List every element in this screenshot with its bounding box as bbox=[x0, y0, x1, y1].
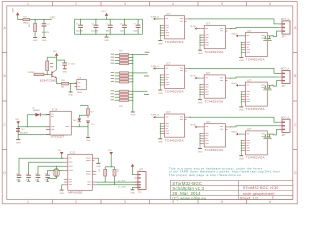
svg-text:STorM32 BGC v130: STorM32 BGC v130 bbox=[243, 186, 279, 190]
svg-text:I2C_SCL: I2C_SCL bbox=[118, 180, 126, 182]
svg-text:Sheet: 1/2: Sheet: 1/2 bbox=[240, 197, 259, 201]
svg-text:IC14: IC14 bbox=[52, 108, 58, 112]
svg-text:10k: 10k bbox=[61, 87, 64, 89]
svg-text:GND: GND bbox=[42, 40, 47, 42]
svg-text:100u/6V3: 100u/6V3 bbox=[20, 132, 28, 134]
svg-text:GND: GND bbox=[131, 115, 136, 117]
svg-text:+BAT: +BAT bbox=[12, 7, 15, 13]
svg-text:2: 2 bbox=[75, 2, 77, 6]
svg-text:C15: C15 bbox=[16, 174, 19, 176]
svg-text:C7: C7 bbox=[133, 23, 135, 25]
svg-text:C16: C16 bbox=[91, 124, 94, 126]
svg-text:LIPO: LIPO bbox=[50, 17, 56, 20]
svg-text:GND: GND bbox=[104, 40, 109, 42]
svg-text:RN3: RN3 bbox=[119, 106, 123, 108]
svg-text:GND: GND bbox=[33, 40, 38, 42]
svg-text:10n: 10n bbox=[26, 179, 29, 181]
svg-text:LIPO: LIPO bbox=[101, 11, 106, 13]
svg-text:C19: C19 bbox=[45, 174, 48, 176]
svg-text:100n: 100n bbox=[16, 179, 20, 181]
svg-text:1: 1 bbox=[27, 2, 29, 6]
svg-text:LED: LED bbox=[73, 120, 77, 122]
svg-text:C3: C3 bbox=[76, 23, 78, 25]
svg-text:GND: GND bbox=[59, 193, 64, 195]
svg-text:5: 5 bbox=[221, 200, 223, 204]
svg-text:100n: 100n bbox=[133, 30, 137, 32]
svg-text:100n: 100n bbox=[106, 30, 110, 32]
svg-text:STorM32-BGC: STorM32-BGC bbox=[172, 181, 202, 186]
svg-text:GND: GND bbox=[86, 140, 91, 142]
svg-text:SM5817: SM5817 bbox=[33, 110, 40, 112]
svg-text:JP7: JP7 bbox=[139, 169, 144, 172]
svg-text:C4: C4 bbox=[91, 23, 93, 25]
svg-text:I2C: I2C bbox=[138, 191, 142, 194]
svg-text:GND: GND bbox=[96, 166, 101, 168]
svg-text:10u/16V: 10u/16V bbox=[76, 30, 84, 32]
svg-text:GND: GND bbox=[130, 193, 135, 195]
svg-text:C6: C6 bbox=[120, 23, 122, 25]
svg-text:1: 1 bbox=[27, 200, 29, 204]
svg-text:nicht gespeichert!: nicht gespeichert! bbox=[243, 192, 275, 196]
svg-text:3: 3 bbox=[124, 200, 126, 204]
svg-text:RN1: RN1 bbox=[119, 51, 123, 53]
svg-text:100n: 100n bbox=[120, 30, 124, 32]
svg-text:4: 4 bbox=[172, 2, 174, 6]
svg-text:C5: C5 bbox=[106, 23, 108, 25]
svg-text:IC13: IC13 bbox=[70, 150, 76, 154]
svg-text:LF33CDT: LF33CDT bbox=[51, 135, 65, 139]
svg-text:C? 100n: C? 100n bbox=[68, 64, 75, 66]
svg-text:GND: GND bbox=[16, 142, 21, 144]
svg-text:10u/16V: 10u/16V bbox=[42, 32, 50, 34]
svg-text:2u2: 2u2 bbox=[35, 179, 38, 181]
svg-text:GND: GND bbox=[68, 95, 73, 97]
svg-text:78L05: 78L05 bbox=[77, 92, 82, 94]
svg-text:R29: R29 bbox=[118, 169, 120, 172]
svg-text:6: 6 bbox=[269, 2, 271, 6]
svg-text:3: 3 bbox=[124, 2, 126, 6]
svg-text:2: 2 bbox=[75, 200, 77, 204]
svg-text:C18: C18 bbox=[35, 174, 38, 176]
svg-text:C17: C17 bbox=[26, 174, 29, 176]
svg-text:GND: GND bbox=[62, 71, 67, 73]
svg-text:5: 5 bbox=[221, 2, 223, 6]
svg-text:The project web page is http:/: The project web page is http://www.olliw… bbox=[169, 173, 241, 177]
svg-text:BC847CSMD: BC847CSMD bbox=[40, 79, 56, 82]
svg-text:(C) www.olliw.eu: (C) www.olliw.eu bbox=[172, 196, 207, 201]
svg-text:R28: R28 bbox=[99, 169, 101, 172]
svg-text:6: 6 bbox=[269, 200, 271, 204]
svg-text:R24: R24 bbox=[61, 80, 64, 82]
svg-text:10u/16V: 10u/16V bbox=[91, 30, 99, 32]
svg-text:R27: R27 bbox=[90, 112, 93, 114]
svg-text:MPU6050: MPU6050 bbox=[68, 190, 82, 194]
svg-text:I2C_SDA: I2C_SDA bbox=[118, 186, 127, 189]
svg-text:C13: C13 bbox=[21, 129, 24, 131]
svg-text:0R05: 0R05 bbox=[23, 23, 29, 25]
svg-text:100n: 100n bbox=[45, 179, 49, 181]
